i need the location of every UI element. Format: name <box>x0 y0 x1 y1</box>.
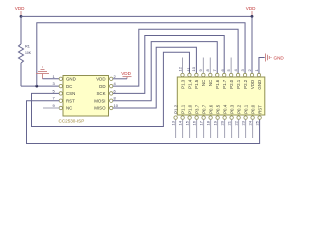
svg-text:P1.1: P1.1 <box>180 104 185 114</box>
U2 top pin 3 <box>240 69 247 77</box>
wire VDD rail <box>21 15 252 17</box>
U2 bottom pin 18 <box>205 116 212 138</box>
U2 top pin 10 <box>191 66 198 76</box>
svg-text:RST: RST <box>257 105 262 114</box>
svg-text:17: 17 <box>198 120 203 125</box>
svg-text:MOSI: MOSI <box>94 98 105 103</box>
U2 top pin 4 <box>233 69 240 77</box>
wire U1 pin2 to VDD <box>113 78 127 80</box>
svg-text:10: 10 <box>191 66 196 71</box>
node junction DC <box>35 85 38 88</box>
svg-text:P0.2: P0.2 <box>236 104 241 114</box>
U2 top pin 2 <box>247 69 254 77</box>
U2 bottom pin 23 <box>240 116 247 138</box>
ground symbol (left) <box>36 67 49 79</box>
svg-text:P0.6: P0.6 <box>208 104 213 114</box>
U2 top pin 12 <box>177 58 184 77</box>
U2 bottom pin 24 <box>247 116 254 138</box>
svg-text:P0.0: P0.0 <box>250 104 255 114</box>
svg-text:DD: DD <box>99 84 105 89</box>
svg-text:24: 24 <box>247 120 252 125</box>
U1 pin 1 <box>53 74 63 81</box>
resistor R1 <box>19 16 32 86</box>
svg-text:P0.4: P0.4 <box>222 104 227 114</box>
wire DD net: U1 pin4 to U2 P2.1 <box>113 29 238 86</box>
wire GND to U1 pin1 <box>43 78 60 80</box>
U1 pin 8 <box>110 96 117 103</box>
U2 top pin 9 <box>198 58 205 77</box>
U2 bottom pin 17 <box>198 116 205 138</box>
wire DC net rail to U2 P2.2 <box>37 23 245 86</box>
power symbol VDD (at U1 pin2) <box>121 71 131 79</box>
U2 bottom pin 15 <box>184 116 191 138</box>
svg-text:23: 23 <box>240 120 245 125</box>
svg-text:13: 13 <box>170 120 175 125</box>
U2 top pin 1 <box>254 69 261 77</box>
svg-text:P1.0: P1.0 <box>187 104 192 114</box>
svg-text:12: 12 <box>177 66 182 71</box>
U1 pin 7 <box>53 96 63 103</box>
svg-text:RST: RST <box>66 98 75 103</box>
svg-text:P1.6: P1.6 <box>215 79 220 89</box>
svg-text:R1: R1 <box>25 45 30 49</box>
wire NC stub U1 pin9 <box>43 107 59 109</box>
wire VDD drop to U2 pin 2 <box>251 16 253 73</box>
op IC U1 CC2530-ISP body <box>59 76 109 124</box>
svg-text:P1.2: P1.2 <box>173 104 178 114</box>
node junction at VDD pin drop <box>251 15 254 18</box>
svg-text:VDD: VDD <box>15 6 25 11</box>
U2 bottom pin 21 <box>226 116 233 138</box>
svg-text:18: 18 <box>205 120 210 125</box>
power symbol VDD (top-right) <box>246 6 256 15</box>
svg-text:P1.4: P1.4 <box>187 79 192 89</box>
svg-text:P2.0: P2.0 <box>229 79 234 89</box>
svg-text:15: 15 <box>184 120 189 125</box>
svg-text:CSN: CSN <box>66 91 75 96</box>
U2 top pin 8 <box>205 58 212 77</box>
U2 bottom pin 13 <box>170 116 177 138</box>
U2 bottom pin 22 <box>233 116 240 138</box>
svg-text:10K: 10K <box>25 51 32 55</box>
svg-text:21: 21 <box>226 120 231 125</box>
svg-text:22: 22 <box>233 120 238 125</box>
wire CSN net: U1 pin5 loop under to U2 P1.4 <box>32 52 190 126</box>
U1 pin 6 <box>110 88 117 95</box>
U1 pin 2 <box>110 74 117 81</box>
svg-text:14: 14 <box>177 120 182 125</box>
svg-text:SCK: SCK <box>96 91 105 96</box>
svg-text:P2.2: P2.2 <box>243 79 248 89</box>
U1 pin 5 <box>53 88 63 95</box>
svg-text:CC2530-ISP: CC2530-ISP <box>59 118 85 123</box>
U2 top pin 11 <box>186 67 191 77</box>
U2 bottom pin 25 <box>254 116 261 126</box>
svg-text:P1.7: P1.7 <box>222 79 227 89</box>
U1 pin 4 <box>110 81 117 88</box>
wire MOSI net: U1 pin8 to U2 P1.6 <box>113 42 217 101</box>
svg-text:P0.3: P0.3 <box>229 104 234 114</box>
node junction VDD/R1 <box>20 15 23 18</box>
op IC U2 CC2530 module body <box>177 77 264 115</box>
U1 pin 3 <box>53 81 63 88</box>
svg-text:VDD: VDD <box>246 6 256 11</box>
svg-text:GND: GND <box>274 55 285 60</box>
U2 bottom pin 14 <box>177 116 184 138</box>
svg-text:16: 16 <box>191 120 196 125</box>
U2 top pin 6 <box>220 69 226 77</box>
wire R1 bottom to U1 pin3 <box>21 85 59 87</box>
power symbol VDD (top-left) <box>15 6 25 15</box>
U2 bottom pin labels <box>173 104 262 114</box>
wire GND: U2 pin1 up to ground symbol <box>259 58 265 74</box>
svg-text:20: 20 <box>219 120 224 125</box>
U1 pin 10 <box>110 103 119 110</box>
svg-text:VDD: VDD <box>96 77 105 82</box>
svg-text:P0.1: P0.1 <box>243 104 248 114</box>
svg-text:GND: GND <box>257 80 262 90</box>
svg-text:NC: NC <box>66 106 72 111</box>
svg-text:VDD: VDD <box>250 80 255 89</box>
svg-text:NC: NC <box>201 80 206 86</box>
wire RST net: U1 pin7 loop under to U2 RST <box>27 101 260 144</box>
svg-text:P3.7: P3.7 <box>194 104 199 114</box>
svg-text:P2.1: P2.1 <box>236 79 241 89</box>
svg-text:P0.7: P0.7 <box>201 104 206 114</box>
wire MISO net: U1 pin10 to U2 P1.5 <box>113 47 196 108</box>
svg-text:NC: NC <box>208 80 213 86</box>
svg-text:P1.5: P1.5 <box>194 79 199 89</box>
svg-text:P0.5: P0.5 <box>215 104 220 114</box>
svg-text:10: 10 <box>114 103 119 108</box>
U2 top pin 5 <box>226 58 233 77</box>
svg-text:25: 25 <box>254 120 259 125</box>
wire SCK net: U1 pin6 to U2 P1.7 <box>113 36 224 94</box>
U1 pin 9 <box>53 103 63 110</box>
U2 bottom pin 16 <box>191 116 198 138</box>
svg-text:DC: DC <box>66 84 72 89</box>
svg-text:GND: GND <box>66 77 76 82</box>
svg-text:MISO: MISO <box>94 106 106 111</box>
ground symbol (right) <box>266 54 285 62</box>
U2 bottom pin 20 <box>219 116 226 138</box>
svg-text:19: 19 <box>212 120 217 125</box>
U2 top pin labels <box>180 79 261 89</box>
U2 top pin 7 <box>212 69 219 77</box>
svg-text:VDD: VDD <box>121 71 131 76</box>
svg-text:P1.3: P1.3 <box>180 79 185 89</box>
U2 bottom pin 19 <box>212 116 219 138</box>
